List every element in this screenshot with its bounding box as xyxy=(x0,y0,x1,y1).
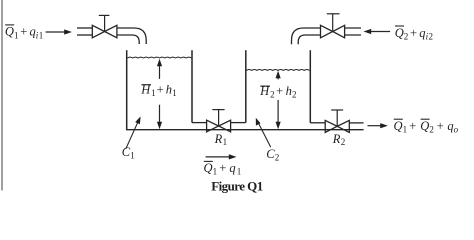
outlet pipe top line tank2 to R2 xyxy=(310,122,325,124)
node H1+h1 level label xyxy=(140,82,177,98)
pipe elbow from valve V1 down into tank 1 (outer line) xyxy=(117,28,146,44)
overbar of Q1 (outflow label) xyxy=(394,118,403,120)
overbar of H1 (level label) xyxy=(141,84,151,86)
svg-text:2: 2 xyxy=(429,125,434,135)
svg-text:1: 1 xyxy=(39,30,44,40)
pipe elbow into tank 2 (inner line) xyxy=(298,35,320,44)
svg-text:+: + xyxy=(276,84,283,98)
caption Figure Q1 xyxy=(211,179,263,194)
svg-text:2: 2 xyxy=(270,89,275,99)
svg-text:+: + xyxy=(157,82,164,96)
svg-text:Q: Q xyxy=(420,119,429,133)
valve V2 stem and handle xyxy=(332,14,334,32)
level arrow H2 lower segment (arrowhead down) xyxy=(277,100,279,124)
wire outflow arrow xyxy=(368,125,382,127)
wire inflow arrow 2 (pointing left) xyxy=(370,31,390,33)
svg-text:2: 2 xyxy=(341,137,346,147)
level arrow H1 upper segment (arrowhead up) xyxy=(159,64,161,79)
tank 1 water surface (wavy) xyxy=(127,56,191,59)
tank 2 water surface (wavy) xyxy=(246,69,309,72)
node Q1+q1 flow label xyxy=(204,161,242,177)
svg-text:2: 2 xyxy=(292,89,297,99)
svg-text:Q: Q xyxy=(204,161,213,175)
overbar of Q1 (flow label) xyxy=(204,160,213,162)
wire inter-tank flow arrow Q1+q1 xyxy=(206,156,230,158)
bottom channel line (tank bottoms) xyxy=(126,129,364,131)
svg-text:Q: Q xyxy=(5,25,14,39)
node Q1+Q2+qo outflow label xyxy=(394,119,459,135)
svg-text:R: R xyxy=(332,132,341,146)
pipe into valve V1 (double line) xyxy=(77,27,92,29)
overbar of H2 (level label) xyxy=(260,85,270,87)
overbar of Q2 (outflow label) xyxy=(421,118,430,120)
svg-text:1: 1 xyxy=(172,88,177,98)
svg-text:Q: Q xyxy=(395,26,404,40)
svg-text:h: h xyxy=(286,84,292,98)
valve R1 stem and handle xyxy=(218,110,220,126)
pipe elbow from valve V1 down into tank 1 (inner line) xyxy=(117,35,139,44)
scan border left edge xyxy=(1,0,3,191)
svg-text:o: o xyxy=(454,125,459,135)
overbar of Q1 (inflow label) xyxy=(5,24,14,26)
level arrow H2 upper segment (arrowhead up) xyxy=(277,76,279,79)
node H2+h2 level label xyxy=(259,84,296,100)
label C1 with pointer arrow xyxy=(126,122,138,149)
node Q1+qi1 inflow label xyxy=(5,25,43,41)
tank 1 left wall xyxy=(126,50,128,130)
svg-text:h: h xyxy=(166,82,172,96)
outlet pipe after R2 (double line) xyxy=(349,122,363,124)
svg-text:Figure Q1: Figure Q1 xyxy=(211,179,263,194)
svg-text:1: 1 xyxy=(151,88,156,98)
overbar of Q2 (inflow label) xyxy=(395,25,404,27)
svg-text:1: 1 xyxy=(237,167,242,177)
svg-text:R: R xyxy=(214,132,223,146)
tank 1 right wall xyxy=(191,50,193,122)
valve R1 body (bowtie) xyxy=(207,120,231,132)
pipe out of valve V2 (double line) xyxy=(345,27,361,29)
svg-text:1: 1 xyxy=(130,150,135,160)
svg-text:+: + xyxy=(20,25,27,39)
valve V1 body (bowtie) xyxy=(92,25,117,38)
tank 2 left wall xyxy=(245,50,247,122)
svg-text:2: 2 xyxy=(275,152,280,162)
connecting pipe top line tank1 to R1 xyxy=(192,122,207,124)
label R2 xyxy=(332,132,346,147)
svg-text:2: 2 xyxy=(429,31,434,41)
connecting pipe top line R1 to tank2 xyxy=(231,122,246,124)
svg-text:Q: Q xyxy=(394,119,403,133)
svg-text:2: 2 xyxy=(404,31,409,41)
svg-text:+: + xyxy=(410,26,417,40)
svg-text:+: + xyxy=(219,161,226,175)
pipe elbow into tank 2 (outer line) xyxy=(292,28,321,44)
valve R2 body (bowtie) xyxy=(325,120,349,132)
svg-text:1: 1 xyxy=(14,30,19,40)
svg-text:+: + xyxy=(409,119,416,133)
svg-text:+: + xyxy=(437,119,444,133)
svg-text:q: q xyxy=(229,161,235,175)
svg-text:1: 1 xyxy=(403,125,408,135)
node Q2+qi2 inflow label xyxy=(395,26,433,42)
valve V2 body (bowtie) xyxy=(321,25,345,38)
level arrow H1 lower segment (arrowhead down) xyxy=(159,105,161,124)
wire inflow arrow 1 xyxy=(46,31,66,33)
svg-text:1: 1 xyxy=(223,137,228,147)
svg-text:1: 1 xyxy=(213,167,218,177)
label C2 with pointer arrow xyxy=(259,123,271,147)
valve R2 stem and handle xyxy=(336,110,338,126)
valve V1 stem and handle xyxy=(104,15,106,31)
label R1 xyxy=(214,132,228,147)
tank 2 right wall xyxy=(309,50,311,123)
